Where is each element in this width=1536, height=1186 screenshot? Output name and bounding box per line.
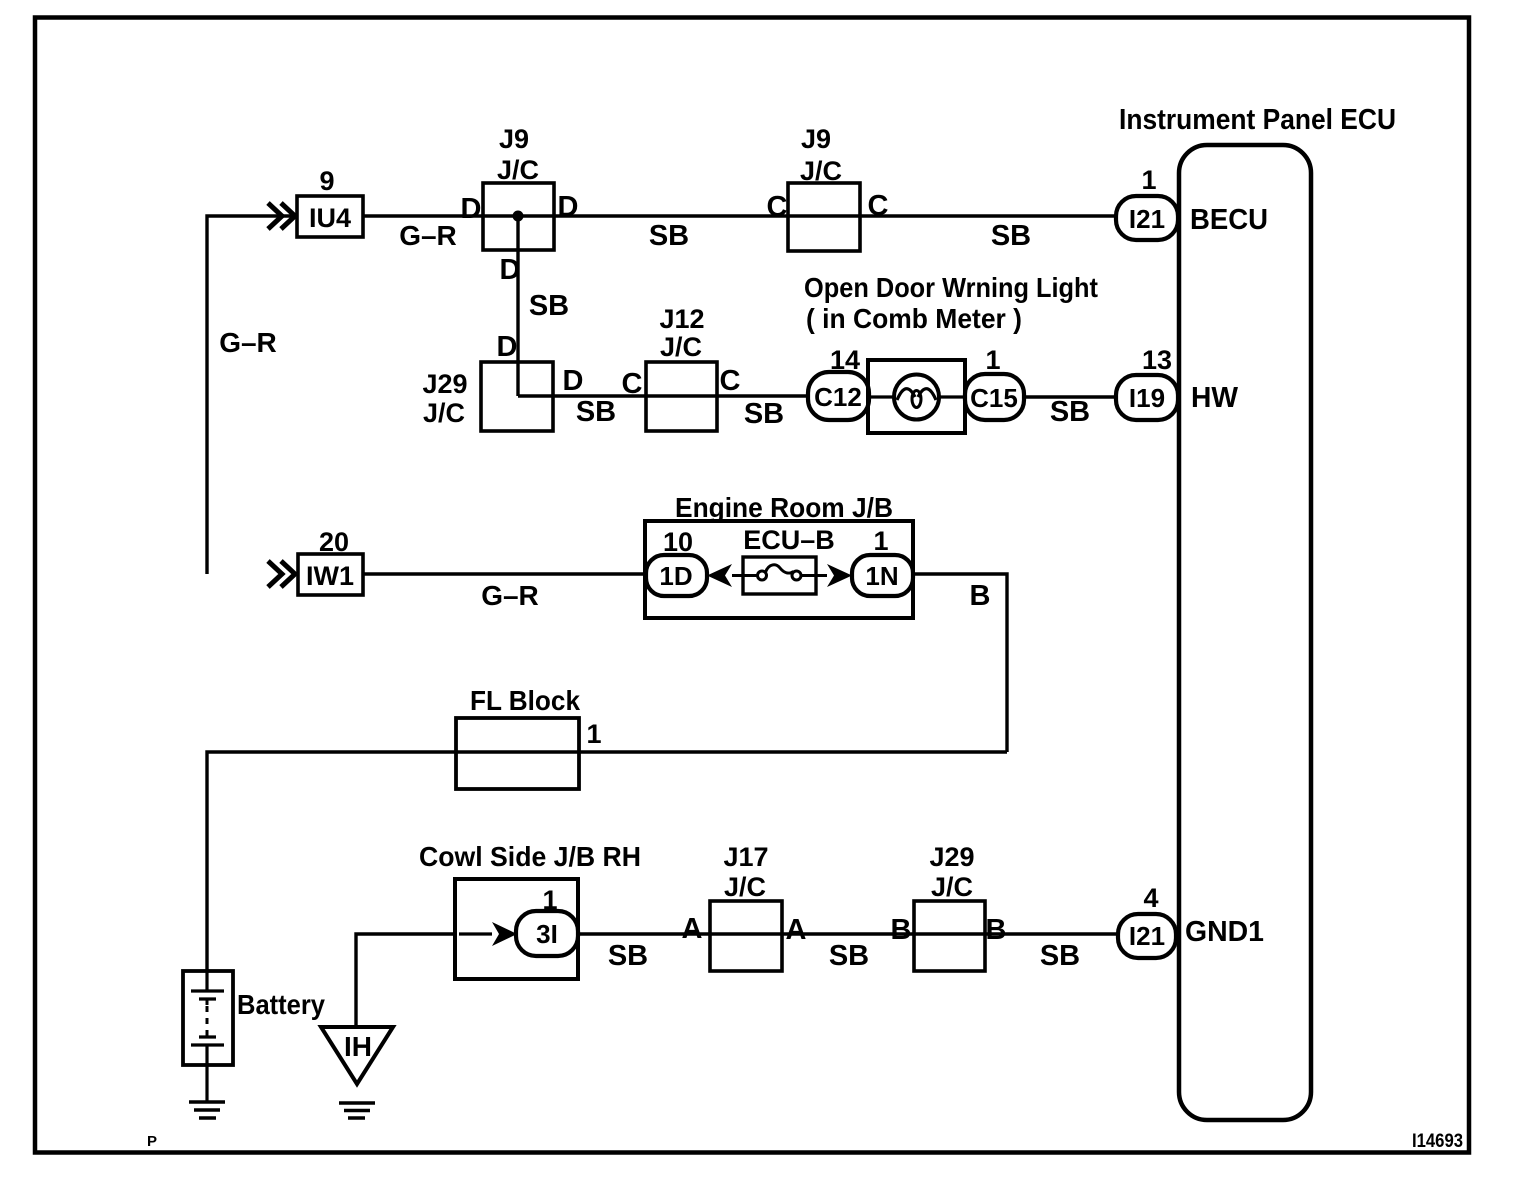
svg-text:1N: 1N [865,561,898,591]
svg-text:I14693: I14693 [1412,1131,1463,1152]
svg-text:IU4: IU4 [309,203,351,233]
junction connector J9 J/C (left) [461,124,579,250]
svg-text:D: D [558,191,579,223]
svg-text:A: A [786,914,807,946]
node: chevron arrows into IU4 [268,203,295,229]
ECU panel: Instrument Panel ECU [1179,145,1311,1120]
svg-text:J29: J29 [929,842,974,872]
svg-text:3I: 3I [536,919,558,949]
connector 1N pin 1 [852,526,913,596]
junction connector J29 J/C (row 2) [422,362,583,431]
junction connector J9 J/C (right) [767,124,889,251]
svg-text:SB: SB [1050,396,1090,428]
arrow into 1D [707,564,732,587]
ground (battery) [189,1102,225,1118]
svg-text:SB: SB [608,940,648,972]
svg-text:I21: I21 [1129,204,1165,234]
svg-text:B: B [891,914,912,946]
svg-text:J17: J17 [723,842,768,872]
svg-text:B: B [970,580,991,612]
svg-text:A: A [682,913,703,945]
svg-text:13: 13 [1142,345,1172,375]
svg-text:Cowl Side J/B RH: Cowl Side J/B RH [419,841,641,872]
connector I19 pin 13 (HW) [1116,345,1239,420]
svg-text:BECU: BECU [1190,204,1268,236]
svg-text:SB: SB [576,396,616,428]
wire: IW1 to Engine Room J/B, G-R [363,574,648,611]
svg-text:SB: SB [649,220,689,252]
svg-text:10: 10 [663,527,693,557]
svg-text:Battery: Battery [237,989,325,1020]
svg-text:J29: J29 [422,369,467,399]
svg-text:( in Comb Meter ): ( in Comb Meter ) [806,303,1022,334]
svg-text:14: 14 [830,345,860,375]
node: junction dot in J9 [513,211,524,222]
svg-text:J/C: J/C [800,156,842,186]
wire: IH to Cowl Side J/B [356,934,456,1027]
wire: IU4 to J9 J/C, G-R [363,216,482,251]
svg-text:D: D [461,193,482,225]
svg-text:J9: J9 [499,124,529,154]
svg-text:SB: SB [744,398,784,430]
connector I21 pin 4 (GND1) [1118,883,1264,958]
svg-text:C: C [767,191,788,223]
svg-text:C12: C12 [814,382,862,412]
fuse ECU-B [732,525,835,594]
ground marker IH [321,1027,393,1118]
junction connector J17 J/C [710,842,782,971]
connector IW1 pin 20 [298,527,363,595]
svg-text:I19: I19 [1129,383,1165,413]
svg-text:G–R: G–R [481,580,539,611]
svg-text:FL Block: FL Block [470,685,580,716]
svg-text:J/C: J/C [660,332,702,362]
fusible link: FL Block pin 1 [456,685,602,789]
svg-text:ECU–B: ECU–B [743,525,835,555]
svg-text:HW: HW [1191,382,1239,414]
svg-text:1: 1 [586,719,601,749]
svg-text:C: C [622,368,643,400]
svg-text:J/C: J/C [423,398,465,428]
arrow into 1N [827,564,852,587]
arrow into 3I [492,922,517,946]
wire: left bus to IW1 (row 3) [219,327,295,587]
svg-text:J/C: J/C [724,872,766,902]
svg-text:SB: SB [1040,940,1080,972]
connector C12 pin 14 [808,345,869,420]
wire: C15 to I19, SB [1024,396,1118,428]
svg-text:D: D [497,331,518,363]
svg-text:1D: 1D [659,561,692,591]
junction block: Engine Room J/B [645,492,913,618]
svg-text:G–R: G–R [219,327,277,358]
connector C15 pin 1 [965,345,1024,420]
svg-text:D: D [500,254,521,286]
wire: 1N to right drop, B [913,574,1007,752]
svg-text:SB: SB [991,220,1031,252]
wire: row 4 through FL block [207,752,1007,971]
svg-text:J12: J12 [659,304,704,334]
svg-text:SB: SB [529,290,569,322]
svg-text:G–R: G–R [399,220,457,251]
lamp: Open Door Warning Light (in Comb Meter) [804,272,1098,433]
svg-text:B: B [986,914,1007,946]
svg-text:1: 1 [1141,165,1156,195]
wire: G-R feed from left bus to IU4 (row 1) [207,216,297,574]
wire: 3I to J17, SB [578,913,710,972]
svg-text:9: 9 [319,166,334,196]
svg-text:GND1: GND1 [1185,916,1264,948]
svg-text:P: P [147,1133,157,1150]
wire: J29 to J12, SB [553,396,646,428]
svg-text:20: 20 [319,527,349,557]
connector I21 pin 1 (BECU) [1116,165,1268,240]
svg-text:C: C [720,365,741,397]
wire: J9 to J9 (second), SB [554,216,788,252]
connector IU4 pin 9 [297,166,363,237]
svg-text:J9: J9 [801,124,831,154]
wire: J17 to J29, SB [782,914,914,972]
svg-text:Instrument Panel ECU: Instrument Panel ECU [1119,104,1396,136]
svg-text:Engine Room J/B: Engine Room J/B [675,492,893,523]
wire: J9 down to J29, SB [497,216,570,396]
svg-text:Open Door Wrning Light: Open Door Wrning Light [804,272,1098,303]
svg-text:1: 1 [873,526,888,556]
svg-text:C15: C15 [970,383,1018,413]
wire: J29 to I21 (GND1), SB [985,934,1118,972]
svg-text:D: D [563,365,584,397]
svg-text:SB: SB [829,940,869,972]
wire: J9 to ECU pin, SB [860,216,1118,252]
connector 1D pin 10 [646,527,707,596]
battery [183,971,325,1101]
svg-text:1: 1 [985,345,1000,375]
svg-text:IW1: IW1 [306,561,354,591]
connector 3I pin 1 [516,911,578,956]
svg-text:IH: IH [344,1031,372,1062]
svg-text:J/C: J/C [931,872,973,902]
junction connector J12 J/C [622,304,741,431]
junction connector J29 J/C (bottom) [914,842,1006,971]
wire: J12 to C12, SB [717,396,810,430]
svg-text:J/C: J/C [497,155,539,185]
junction block: Cowl Side J/B RH [419,841,641,979]
svg-text:4: 4 [1143,883,1158,913]
svg-text:I21: I21 [1129,921,1165,951]
